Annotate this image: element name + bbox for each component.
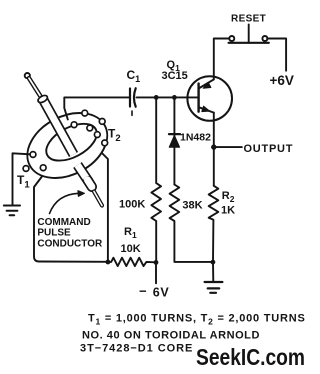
wire: junction to ground: [212, 262, 214, 282]
capacitor C1 polarity tick: [131, 111, 133, 115]
wire: toroid T2 top to C1: [64, 97, 129, 119]
wire: T1 to left ground: [13, 153, 34, 205]
node: 38K/R2 bottom junction: [211, 260, 216, 265]
toroid core T1/T2: [16, 100, 118, 191]
wire: output node to OUTPUT label: [214, 146, 242, 148]
svg-text:1N482: 1N482: [180, 132, 211, 144]
command pulse conductor neck: [29, 78, 40, 95]
svg-text:10K: 10K: [121, 243, 141, 255]
transistor Q1 circle: [187, 76, 232, 121]
svg-text:SeekIC.com: SeekIC.com: [196, 344, 305, 370]
node: -6V junction: [154, 260, 159, 265]
winding loop: [40, 165, 46, 171]
pushbutton RESET left contact: [229, 36, 234, 41]
pushbutton RESET right contact: [262, 36, 267, 41]
wire: emitter down to output node: [213, 113, 215, 186]
svg-text:PULSE: PULSE: [37, 228, 71, 239]
resistor R1 10K: [108, 258, 156, 266]
transistor Q1 base bar: [197, 84, 199, 112]
winding loop: [102, 140, 108, 146]
transistor Q1 lower arrow: [202, 106, 209, 111]
svg-text:+6V: +6V: [270, 73, 294, 88]
resistor 100K: [151, 97, 161, 262]
wire: C1 to Q1 base: [137, 96, 199, 98]
command pulse conductor body (lower): [78, 165, 89, 182]
node: R1 left junction: [106, 260, 111, 265]
winding loop: [94, 132, 100, 138]
svg-text:1K: 1K: [221, 205, 235, 217]
mounting plate outline: [34, 149, 108, 262]
svg-text:38K: 38K: [182, 200, 202, 212]
svg-text:RESET: RESET: [231, 13, 266, 24]
node: junction top of diode: [172, 95, 177, 100]
svg-text:OUTPUT: OUTPUT: [244, 143, 294, 155]
diode 1N482: [173, 97, 175, 184]
winding loop: [99, 119, 105, 125]
svg-text:T1 = 1,000 TURNS, T2 = 2,000 T: T1 = 1,000 TURNS, T2 = 2,000 TURNS: [88, 313, 306, 327]
svg-text:100K: 100K: [119, 199, 145, 211]
transistor Q1 upper arrow: [203, 82, 211, 88]
svg-text:3C15: 3C15: [162, 70, 188, 82]
svg-text:3T−7428−D1 CORE: 3T−7428−D1 CORE: [80, 343, 193, 355]
svg-text:−: −: [139, 284, 147, 299]
winding loop: [87, 125, 93, 131]
command pulse conductor tip ring: [25, 73, 30, 78]
svg-text:NO. 40 ON TOROIDAL ARNOLD: NO. 40 ON TOROIDAL ARNOLD: [82, 330, 260, 342]
ground (left): [4, 206, 20, 216]
winding loop: [30, 152, 36, 158]
command pulse conductor tail: [94, 192, 102, 206]
command pulse conductor body (upper): [43, 99, 74, 155]
node: OUTPUT junction: [211, 144, 216, 149]
command pulse conductor top face: [37, 94, 49, 104]
transistor Q1 upper branch: [199, 79, 214, 88]
pushbutton RESET stem: [248, 25, 250, 43]
annotation arrow to conductor: [50, 193, 80, 213]
transistor Q1 lower branch: [199, 107, 214, 112]
ground (bottom right): [205, 282, 223, 293]
resistor 38K: [170, 185, 213, 262]
resistor R2 1K: [209, 186, 219, 262]
node: junction top of 100K: [154, 95, 159, 100]
wire: -6V stub: [155, 262, 157, 283]
svg-text:CONDUCTOR: CONDUCTOR: [37, 239, 103, 250]
wire: collector up to reset switch: [214, 39, 230, 80]
pushbutton RESET bar: [229, 42, 269, 44]
winding loop: [71, 122, 77, 128]
winding loop: [82, 110, 88, 116]
winding loop: [23, 166, 29, 172]
svg-text:COMMAND: COMMAND: [37, 217, 90, 228]
svg-text:6V: 6V: [153, 286, 170, 300]
wire: reset to +6V: [267, 39, 286, 71]
capacitor C1: [130, 88, 136, 106]
